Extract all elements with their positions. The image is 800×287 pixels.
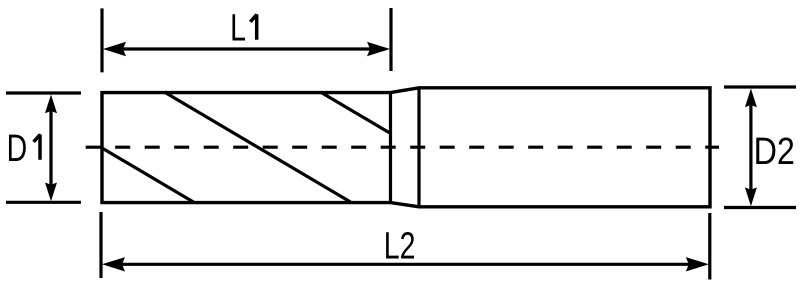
D2 dimension line bbox=[749, 98, 752, 196]
L2 extension line right bbox=[708, 213, 711, 280]
D1 label bbox=[7, 128, 28, 170]
flute helix line 3 bbox=[320, 92, 390, 133]
L2 arrowhead left bbox=[102, 257, 125, 271]
flute end line bbox=[389, 93, 392, 203]
svg-text:D: D bbox=[7, 128, 28, 170]
L1 extension line left bbox=[100, 8, 103, 72]
D2 arrowhead top bbox=[745, 89, 757, 108]
end mill body outline bbox=[102, 88, 710, 207]
svg-text:D2: D2 bbox=[754, 131, 795, 173]
D2 arrowhead bottom bbox=[745, 187, 757, 206]
svg-text:L2: L2 bbox=[384, 226, 416, 268]
centerline bbox=[86, 146, 719, 149]
L1 dimension line bbox=[110, 47, 383, 50]
L1 arrowhead right bbox=[367, 42, 390, 56]
L1 arrowhead left bbox=[103, 42, 126, 56]
svg-text:L: L bbox=[230, 8, 246, 50]
L2 label bbox=[384, 226, 416, 268]
D1 arrowhead top bbox=[45, 95, 57, 114]
D2 label bbox=[754, 131, 795, 173]
flute helix line 2 bbox=[164, 92, 350, 202]
L2 arrowhead right bbox=[686, 257, 709, 271]
L2 dimension line bbox=[109, 263, 702, 266]
D1 dimension line bbox=[49, 104, 52, 192]
L2 extension line left bbox=[99, 212, 102, 278]
D1 arrowhead bottom bbox=[45, 183, 57, 202]
L1 label bbox=[230, 8, 246, 50]
flute helix line 1 bbox=[102, 148, 193, 202]
D2 extension line top bbox=[724, 85, 796, 88]
D2 extension line bottom bbox=[724, 206, 796, 209]
D1 extension line bottom bbox=[6, 201, 81, 204]
D1 extension line top bbox=[6, 91, 81, 94]
shank start line bbox=[417, 88, 420, 207]
L1 extension line right bbox=[389, 8, 392, 71]
